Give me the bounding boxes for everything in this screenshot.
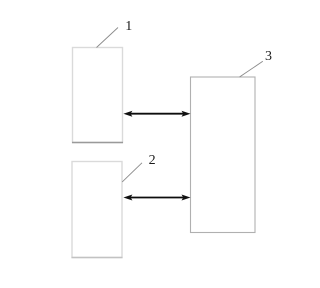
block 3 (right rectangle) [191, 77, 256, 233]
double-headed arrow between block 2 and block 3 [123, 195, 190, 201]
block 1 (top-left rectangle) [72, 48, 123, 143]
leader line to block 3 [240, 61, 263, 77]
svg-text:1: 1 [125, 19, 132, 34]
block 2 (bottom-left rectangle) [72, 162, 123, 258]
leader line to block 2 [122, 163, 142, 182]
leader line to block 1 [97, 28, 119, 48]
svg-text:2: 2 [149, 153, 156, 168]
double-headed arrow between block 1 and block 3 [123, 111, 190, 117]
svg-text:3: 3 [265, 49, 272, 64]
